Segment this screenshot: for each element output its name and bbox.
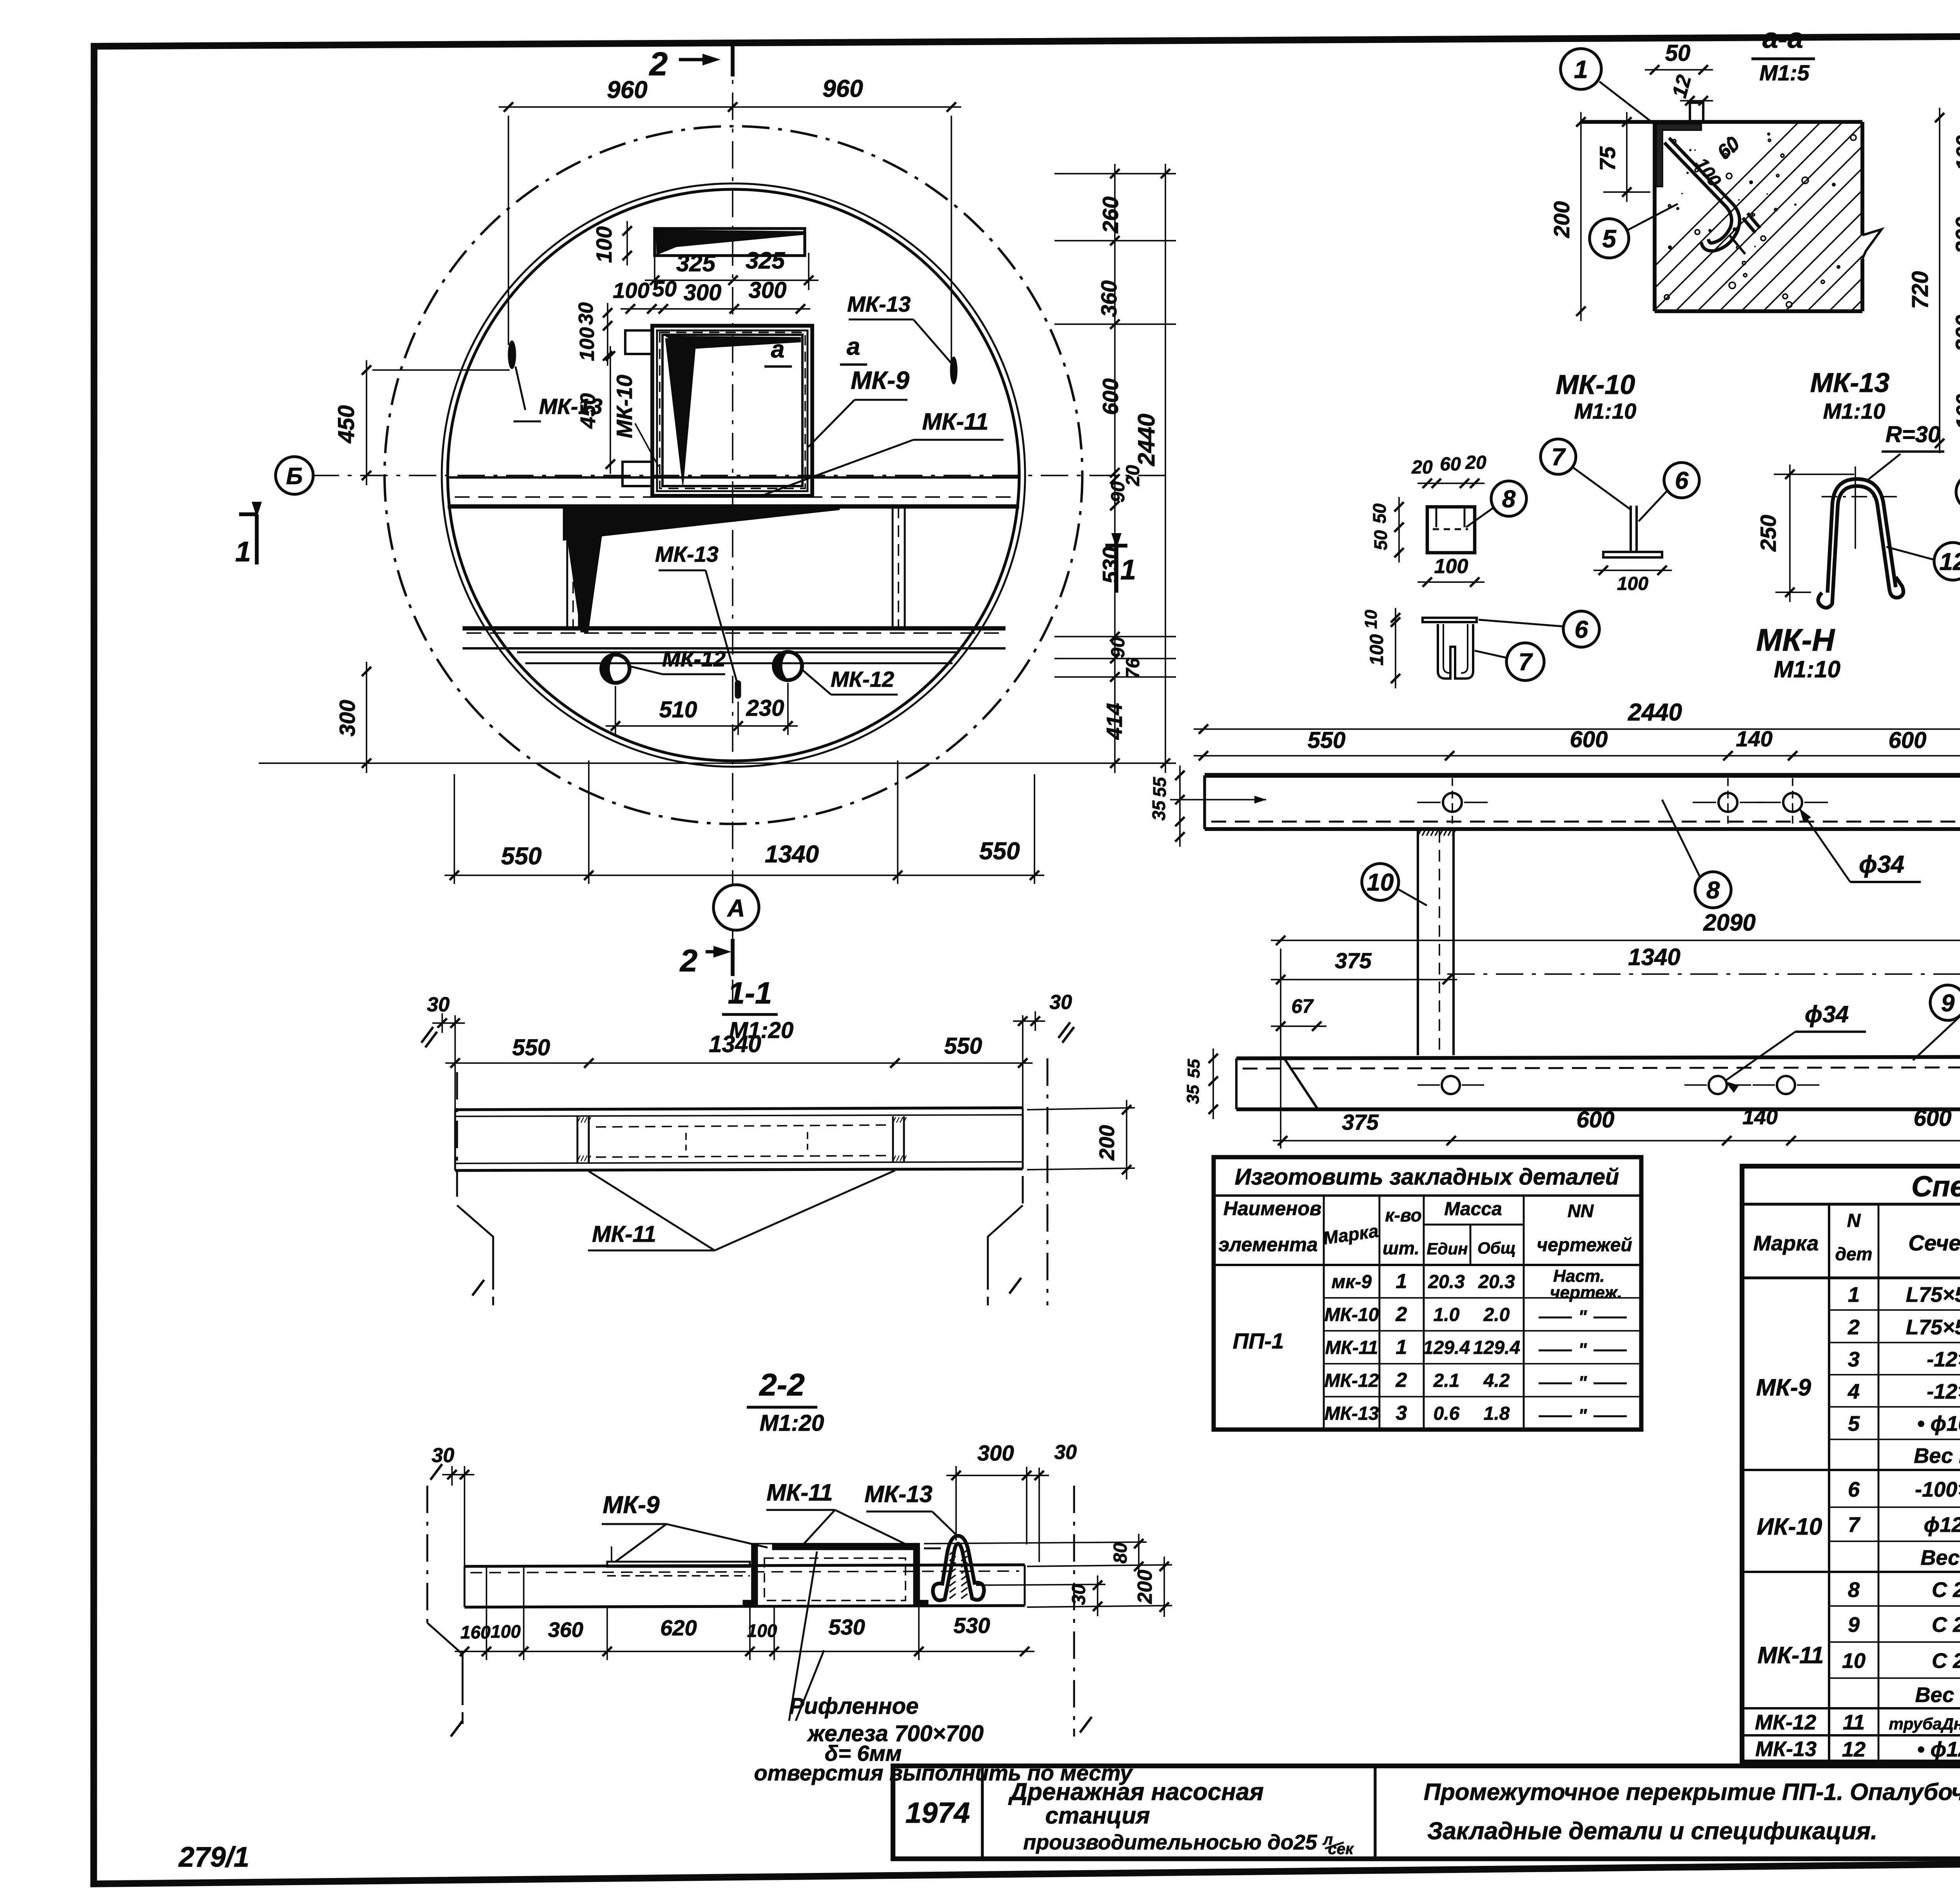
- svg-text:30: 30: [432, 1444, 454, 1467]
- svg-text:МК-11: МК-11: [1325, 1337, 1378, 1358]
- svg-text:50: 50: [1665, 40, 1691, 66]
- svg-text:960: 960: [822, 75, 863, 102]
- svg-text:100: 100: [491, 1621, 521, 1642]
- svg-text:производительносью до25: производительносью до25: [1023, 1831, 1318, 1854]
- svg-text:С 24: С 24: [1932, 1613, 1960, 1637]
- svg-text:Вес наплавленного металла: Вес наплавленного металла: [1915, 1683, 1960, 1707]
- svg-text:МК-11: МК-11: [922, 408, 988, 435]
- svg-text:1340: 1340: [1628, 944, 1680, 970]
- svg-text:2: 2: [649, 45, 668, 82]
- svg-text:200: 200: [1095, 1125, 1119, 1161]
- svg-text:300: 300: [749, 278, 787, 303]
- svg-text:2: 2: [1396, 1303, 1407, 1326]
- svg-text:10: 10: [1361, 610, 1381, 629]
- svg-text:МК-13: МК-13: [864, 1481, 933, 1507]
- svg-text:1: 1: [235, 536, 251, 568]
- svg-text:100: 100: [592, 226, 616, 263]
- svg-text:2.1: 2.1: [1433, 1370, 1460, 1391]
- svg-text:75: 75: [1595, 146, 1620, 171]
- svg-text:90: 90: [1108, 637, 1129, 658]
- svg-text:Спецификация металла Ст3: Спецификация металла Ст3: [1911, 1170, 1960, 1203]
- svg-text:L75×50×6: L75×50×6: [1906, 1316, 1960, 1339]
- svg-text:9: 9: [1848, 1613, 1860, 1637]
- svg-text:90: 90: [1108, 481, 1129, 503]
- svg-text:100: 100: [1434, 555, 1468, 578]
- svg-text:35: 35: [1149, 800, 1169, 821]
- svg-text:100: 100: [576, 327, 599, 361]
- svg-text:200: 200: [1951, 315, 1960, 352]
- svg-text:-12×6: -12×6: [1927, 1380, 1960, 1403]
- svg-text:20: 20: [1465, 452, 1486, 473]
- svg-text:325: 325: [746, 247, 786, 274]
- svg-text:3: 3: [1848, 1348, 1860, 1371]
- svg-text:510: 510: [659, 697, 697, 722]
- svg-text:6: 6: [1848, 1478, 1860, 1501]
- svg-text:30: 30: [575, 302, 597, 325]
- svg-text:М1:10: М1:10: [1774, 656, 1840, 682]
- svg-text:Един: Един: [1427, 1239, 1468, 1258]
- svg-text:ϕ34: ϕ34: [1805, 1001, 1849, 1027]
- svg-text:10: 10: [1842, 1649, 1866, 1673]
- svg-text:МК-12: МК-12: [1755, 1711, 1816, 1734]
- svg-text:МК-11: МК-11: [592, 1221, 656, 1247]
- svg-text:530: 530: [828, 1615, 865, 1639]
- svg-text:375: 375: [1342, 1110, 1379, 1134]
- svg-text:550: 550: [501, 843, 541, 870]
- svg-text:55: 55: [1149, 777, 1170, 797]
- svg-text:550: 550: [979, 838, 1020, 865]
- svg-text:1: 1: [1396, 1336, 1407, 1359]
- svg-text:МК-13: МК-13: [1810, 367, 1890, 398]
- svg-text:140: 140: [1736, 726, 1772, 751]
- svg-text:9: 9: [1941, 990, 1955, 1017]
- svg-text:МК-13: МК-13: [539, 394, 603, 419]
- svg-text:М1:10: М1:10: [1574, 399, 1637, 423]
- svg-text:100: 100: [747, 1620, 777, 1641]
- svg-text:67: 67: [1291, 995, 1314, 1017]
- svg-text:80: 80: [1110, 1542, 1131, 1564]
- svg-text:360: 360: [1096, 280, 1121, 317]
- svg-text:МК-13: МК-13: [847, 292, 911, 316]
- svg-text:5: 5: [1848, 1412, 1860, 1435]
- svg-text:200: 200: [1951, 217, 1960, 254]
- svg-text:ϕ12АI: ϕ12АI: [1924, 1513, 1960, 1537]
- svg-text:a-a: a-a: [1762, 23, 1803, 54]
- svg-text:1.8: 1.8: [1484, 1403, 1510, 1424]
- svg-text:2440: 2440: [1628, 699, 1682, 726]
- svg-text:2: 2: [1396, 1369, 1407, 1392]
- svg-text:279/1: 279/1: [178, 1842, 249, 1873]
- svg-text:20.3: 20.3: [1478, 1272, 1515, 1292]
- svg-text:160: 160: [1952, 135, 1960, 171]
- svg-text:260: 260: [1098, 196, 1123, 233]
- svg-text:129.4: 129.4: [1423, 1337, 1470, 1358]
- svg-text:600: 600: [1889, 728, 1927, 753]
- svg-text:6: 6: [1675, 467, 1689, 494]
- svg-text:7: 7: [1848, 1513, 1861, 1537]
- svg-text:200: 200: [1549, 201, 1574, 238]
- svg-text:7: 7: [1552, 444, 1566, 471]
- svg-text:a: a: [771, 336, 784, 363]
- svg-text:375: 375: [1335, 948, 1372, 973]
- svg-text:МК-Н: МК-Н: [1756, 622, 1835, 657]
- svg-text:360: 360: [548, 1618, 583, 1642]
- svg-text:3: 3: [1396, 1402, 1407, 1424]
- svg-text:1: 1: [1848, 1283, 1860, 1306]
- svg-text:76: 76: [1123, 658, 1143, 679]
- svg-text:А: А: [727, 895, 745, 922]
- svg-text:30: 30: [1054, 1441, 1077, 1464]
- svg-text:600: 600: [1914, 1105, 1952, 1131]
- svg-text:МК-9: МК-9: [1756, 1374, 1811, 1401]
- svg-text:12: 12: [1668, 73, 1696, 100]
- svg-text:Изготовить закладных деталей: Изготовить закладных деталей: [1235, 1164, 1619, 1190]
- svg-text:L75×50×6: L75×50×6: [1906, 1283, 1960, 1306]
- svg-text:дет: дет: [1835, 1244, 1873, 1264]
- svg-text:160: 160: [1952, 394, 1960, 429]
- svg-text:• ϕ12АI: • ϕ12АI: [1917, 1738, 1960, 1761]
- svg-text:Вес наплавленного метама: Вес наплавленного метама: [1920, 1546, 1960, 1570]
- svg-text:60: 60: [1440, 454, 1461, 475]
- svg-text:МК-10: МК-10: [612, 375, 637, 438]
- svg-text:12: 12: [1940, 548, 1960, 575]
- svg-text:Б: Б: [286, 463, 303, 489]
- svg-text:50: 50: [652, 276, 677, 301]
- svg-text:5: 5: [1602, 225, 1617, 253]
- svg-text:a: a: [847, 333, 860, 360]
- svg-text:550: 550: [512, 1035, 550, 1060]
- svg-text:2090: 2090: [1703, 909, 1755, 936]
- svg-text:35: 35: [1183, 1085, 1203, 1104]
- svg-text:• ϕ10АI: • ϕ10АI: [1917, 1412, 1960, 1435]
- svg-text:20.3: 20.3: [1428, 1272, 1465, 1292]
- svg-text:NN: NN: [1568, 1201, 1594, 1221]
- svg-text:Общ: Общ: [1477, 1239, 1516, 1257]
- svg-text:Наименов: Наименов: [1223, 1198, 1321, 1219]
- svg-text:М1:10: М1:10: [1823, 399, 1886, 423]
- svg-text:50: 50: [1369, 503, 1390, 524]
- svg-text:600: 600: [1570, 727, 1608, 752]
- svg-text:": ": [1578, 1405, 1587, 1426]
- svg-text:МК-10: МК-10: [1556, 369, 1635, 400]
- svg-text:2: 2: [679, 943, 698, 978]
- svg-text:8: 8: [1706, 877, 1720, 904]
- svg-text:230: 230: [746, 695, 784, 721]
- svg-text:станция: станция: [1045, 1802, 1150, 1829]
- svg-text:530: 530: [1098, 547, 1123, 583]
- svg-text:4.2: 4.2: [1483, 1370, 1510, 1391]
- svg-text:2.0: 2.0: [1483, 1305, 1510, 1325]
- svg-text:960: 960: [607, 76, 647, 103]
- svg-text:чертеж.: чертеж.: [1550, 1283, 1622, 1302]
- svg-text:трубаДн=108×4: трубаДн=108×4: [1889, 1715, 1960, 1733]
- svg-text:2: 2: [1847, 1316, 1860, 1339]
- svg-text:250: 250: [1756, 515, 1780, 552]
- svg-text:-100×10: -100×10: [1915, 1478, 1960, 1501]
- svg-text:12: 12: [1842, 1738, 1866, 1761]
- svg-text:30: 30: [427, 993, 450, 1016]
- svg-text:МК-9: МК-9: [603, 1492, 660, 1519]
- svg-text:Масса: Масса: [1444, 1199, 1502, 1219]
- svg-text:МК-13: МК-13: [655, 542, 719, 566]
- svg-text:1974: 1974: [906, 1796, 970, 1829]
- svg-text:1-1: 1-1: [728, 976, 772, 1010]
- svg-text:6: 6: [1575, 616, 1588, 643]
- svg-text:элемента: элемента: [1218, 1234, 1318, 1256]
- svg-text:1340: 1340: [709, 1031, 761, 1057]
- svg-text:200: 200: [1134, 1570, 1156, 1604]
- svg-text:10: 10: [1367, 869, 1394, 896]
- svg-text:620: 620: [660, 1615, 697, 1640]
- svg-text:100: 100: [1691, 154, 1726, 190]
- svg-text:МК-11: МК-11: [1757, 1642, 1824, 1668]
- svg-text:МК-11: МК-11: [766, 1479, 833, 1506]
- svg-text:ϕ34: ϕ34: [1859, 851, 1904, 878]
- svg-text:Дренажная насосная: Дренажная насосная: [1008, 1778, 1264, 1805]
- svg-text:300: 300: [335, 700, 359, 736]
- svg-text:Рифленное: Рифленное: [789, 1693, 919, 1719]
- svg-text:Марка: Марка: [1753, 1232, 1819, 1255]
- svg-text:М1:5: М1:5: [1759, 60, 1809, 85]
- svg-text:60: 60: [1713, 132, 1744, 163]
- svg-text:С 20: С 20: [1932, 1649, 1960, 1673]
- svg-text:шт.: шт.: [1383, 1238, 1419, 1258]
- svg-text:30: 30: [1069, 1584, 1089, 1605]
- svg-text:ПП-1: ПП-1: [1233, 1328, 1284, 1353]
- svg-text:Вес Наплавленного металла: Вес Наплавленного металла: [1914, 1444, 1960, 1468]
- svg-text:8: 8: [1502, 486, 1516, 513]
- svg-text:С 24: С 24: [1932, 1578, 1960, 1602]
- svg-text:Марка: Марка: [1322, 1221, 1380, 1248]
- svg-text:0.6: 0.6: [1434, 1403, 1460, 1424]
- svg-text:55: 55: [1184, 1059, 1203, 1078]
- svg-text:720: 720: [1907, 271, 1933, 309]
- svg-text:414: 414: [1102, 703, 1127, 740]
- svg-text:550: 550: [944, 1033, 982, 1059]
- svg-text:1: 1: [1396, 1270, 1407, 1293]
- svg-text:300: 300: [977, 1441, 1014, 1465]
- svg-text:100: 100: [1617, 573, 1648, 594]
- svg-text:11: 11: [1843, 1711, 1865, 1734]
- svg-text:50: 50: [1370, 530, 1391, 550]
- svg-text:ИК-10: ИК-10: [1757, 1513, 1822, 1540]
- svg-text:129.4: 129.4: [1473, 1337, 1520, 1358]
- svg-text:": ": [1578, 1372, 1587, 1393]
- svg-text:325: 325: [676, 250, 716, 276]
- svg-text:2-2: 2-2: [759, 1367, 805, 1402]
- svg-text:8: 8: [1848, 1578, 1860, 1602]
- svg-text:600: 600: [1577, 1107, 1615, 1132]
- svg-text:": ": [1578, 1306, 1587, 1327]
- svg-text:30: 30: [1049, 991, 1072, 1014]
- svg-text:550: 550: [1308, 728, 1346, 753]
- svg-text:140: 140: [1742, 1105, 1778, 1129]
- svg-text:мк-9: мк-9: [1332, 1272, 1372, 1292]
- svg-text:20: 20: [1411, 457, 1433, 478]
- svg-text:1.0: 1.0: [1434, 1305, 1460, 1325]
- svg-text:1340: 1340: [765, 841, 819, 868]
- svg-text:1: 1: [1574, 55, 1588, 83]
- svg-text:МК-9: МК-9: [851, 366, 909, 394]
- svg-text:2440: 2440: [1133, 414, 1160, 466]
- svg-text:к-во: к-во: [1385, 1205, 1421, 1225]
- svg-text:-12×5: -12×5: [1927, 1348, 1960, 1371]
- svg-text:600: 600: [1098, 378, 1123, 415]
- svg-text:МК-12: МК-12: [831, 667, 894, 691]
- svg-text:чертежей: чертежей: [1537, 1235, 1632, 1256]
- svg-text:450: 450: [334, 405, 359, 444]
- svg-text:300: 300: [684, 280, 722, 305]
- svg-text:7: 7: [1519, 649, 1533, 676]
- svg-text:Промежуточное перекрытие ПП-: Промежуточное перекрытие ПП-1. Опалубочн…: [1424, 1779, 1960, 1805]
- svg-text:100: 100: [613, 278, 649, 303]
- svg-text:МК-12: МК-12: [662, 646, 726, 671]
- svg-text:N: N: [1847, 1210, 1861, 1231]
- svg-text:100: 100: [1367, 634, 1387, 666]
- svg-text:R=30: R=30: [1886, 422, 1940, 447]
- svg-text:": ": [1578, 1339, 1587, 1360]
- svg-text:Сечение: Сечение: [1908, 1230, 1960, 1255]
- svg-text:МК-10: МК-10: [1325, 1305, 1379, 1325]
- svg-text:Закладные детали и специфик: Закладные детали и спецификация.: [1427, 1818, 1878, 1845]
- svg-text:МК-13: МК-13: [1755, 1737, 1817, 1761]
- svg-text:4: 4: [1847, 1380, 1860, 1403]
- svg-text:М1:20: М1:20: [760, 1410, 824, 1436]
- svg-text:МК-13: МК-13: [1325, 1403, 1379, 1424]
- svg-text:МК-12: МК-12: [1325, 1370, 1379, 1391]
- svg-text:530: 530: [953, 1613, 990, 1638]
